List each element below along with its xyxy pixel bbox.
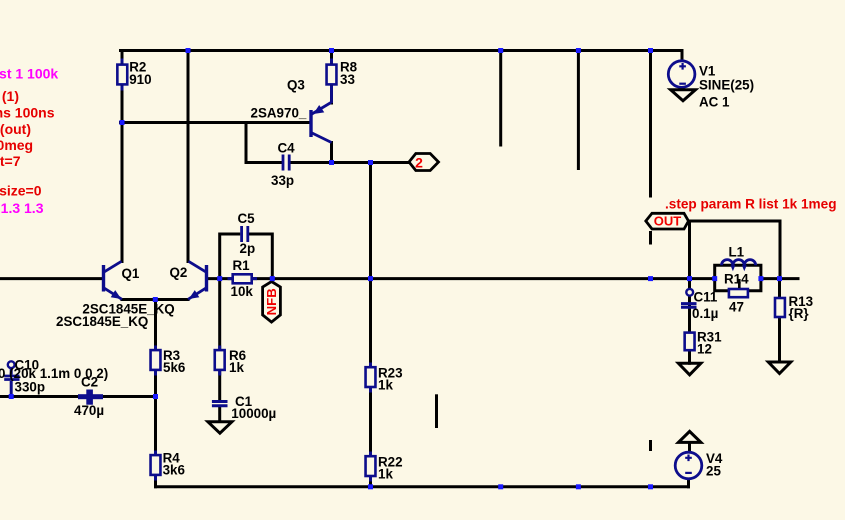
svg-text:330p: 330p [15,379,46,394]
svg-text:1.3 1.3: 1.3 1.3 [1,200,44,216]
resistor R8 [327,59,358,91]
resistor R14 [724,272,749,315]
node dot bottom bus x=650 [648,484,653,489]
node dot top bus x=650 [648,48,653,53]
wire dash x=650 lower [649,442,652,450]
node dot node2 column [368,160,373,165]
svg-text:1k: 1k [229,360,244,375]
svg-text:V1: V1 [699,64,716,79]
svg-text:.step param R list 1k 1meg: .step param R list 1k 1meg [665,197,837,212]
svg-text:size=0: size=0 [0,183,42,199]
transistor Q3 (PNP 2SA970) [251,78,332,143]
wire bottom bus [156,485,689,488]
svg-text:R14: R14 [724,272,749,287]
wire R2 column down to Q1 collector [121,51,124,262]
svg-text:10k: 10k [231,284,254,299]
wire R23 column from node 2 row to bottom bus [369,163,372,487]
svg-text:Q1: Q1 [122,266,140,281]
node dot main bus x=690 [687,276,692,281]
node dot C10 [9,394,14,399]
voltage source V1 [668,61,754,110]
resistor R4 [151,451,185,481]
net flag NFB [263,282,281,323]
node dot R2 bottom [120,120,125,125]
svg-text:2SC1845E_KQ: 2SC1845E_KQ [56,314,148,329]
svg-text:910: 910 [129,72,151,87]
resistor R3 [151,346,186,376]
node dot top bus x=500 [498,48,503,53]
svg-text:25: 25 [706,463,721,478]
wire emitter row Q1-Q2 [122,298,188,301]
node dot bottom bus x=370 [368,484,373,489]
capacitor C5 [238,211,256,256]
transistor Q2 (NPN mirrored) [170,261,207,299]
svg-text:t=7: t=7 [0,153,21,169]
svg-text:(1): (1) [2,88,19,104]
capacitor C10 (polarized) [4,357,45,395]
svg-text:33p: 33p [271,173,294,188]
svg-text:C2: C2 [81,374,98,389]
svg-text:2p: 2p [240,241,256,256]
capacitor C11 (polarized) [681,289,718,321]
wire C4 corner [245,123,248,163]
node dot main bus x=761 [758,276,763,281]
transistor Q1 (NPN) [104,261,140,299]
node dot C2 row x=155 [153,394,158,399]
ground under R31 [678,363,701,375]
svg-text:Q2: Q2 [170,265,188,280]
wire dangling stub x=436 [435,396,438,427]
node dot bottom bus x=578 [576,484,581,489]
wire L1/R14 loop [715,265,761,291]
net flag OUT [646,213,689,229]
node dot main bus x=650 [648,276,653,281]
node dot top bus x=188 [186,48,191,53]
wire main bus right [761,277,798,280]
svg-text:OUT: OUT [654,214,682,229]
node dot top bus x=578 [576,48,581,53]
wire V+ rail to V1 [681,51,684,64]
svg-text:C4: C4 [278,141,296,156]
svg-text:NFB: NFB [264,288,279,315]
wire C5 loop [220,234,273,279]
node dot main bus x=370 [368,276,373,281]
svg-text:Q3: Q3 [287,78,305,93]
svg-text:2: 2 [415,154,423,170]
wire R4 column [154,397,157,487]
svg-text:1k: 1k [378,467,393,482]
svg-text:12: 12 [697,342,712,357]
capacitor C2 (polarized, horizontal) [74,374,104,418]
directive text left column [0,66,58,217]
node dot bottom bus x=500 [498,484,503,489]
wire R3 column emitters down to C2 row [154,300,157,397]
svg-text:C5: C5 [238,211,256,226]
wire R6 column down to C1 [218,279,221,400]
resistor R31 [685,330,722,357]
wire C2 row [0,395,156,398]
svg-text:st 1 100k: st 1 100k [0,66,58,82]
wire C4 row right to node 2 flag [291,161,409,164]
wire Q2 collector column [187,51,190,262]
wire C11/R31 column [688,279,691,364]
svg-text:SINE(25): SINE(25) [699,78,754,93]
wire R8 column top [330,51,333,104]
capacitor C4 [271,141,295,189]
node flag 2 [409,154,439,171]
ground under C1 [208,422,232,433]
wire main bus center [208,277,715,280]
svg-text:C11: C11 [694,289,718,304]
resistor R13 [775,294,813,321]
node dot emitters [153,297,158,302]
wire OUT row [688,220,780,223]
resistor R2 [117,59,151,91]
node dot R1 right / NFB [270,276,275,281]
wire OUT to bus at x=780 [779,221,782,279]
wire main bus left (Q1 base) [0,277,102,280]
wire V4 bottom connection [687,478,690,487]
wire top bus [121,49,683,52]
resistor R22 [366,452,403,482]
svg-text:{R}: {R} [789,306,810,321]
resistor R23 [366,363,403,393]
wire C1 to ground [218,407,221,422]
svg-text:10000µ: 10000µ [231,406,276,421]
wire R13 column to ground [778,279,781,362]
wire dash below OUT flag [649,233,652,244]
ground under V1 [671,90,696,101]
node dot top bus x=331 [329,48,334,53]
wire OUT to bus at x=690 [688,221,691,279]
wire base row y=122.5 [121,121,310,124]
svg-text:L1: L1 [729,245,745,260]
resistor R6 [215,346,246,376]
svg-text:0.1µ: 0.1µ [692,306,718,321]
svg-text:33: 33 [340,72,355,87]
node dot Q2 base [217,276,222,281]
wire C4 row left [246,161,282,164]
wire stub x=578 [577,51,580,169]
capacitor C1 [212,394,276,421]
svg-text:1k: 1k [378,378,393,393]
node dot main bus x=780 [777,276,782,281]
inductor L1 [722,245,756,272]
svg-text:470µ: 470µ [74,403,104,418]
resistor R1 [228,258,258,299]
svg-text:AC 1: AC 1 [699,95,730,110]
svg-text:2SA970_: 2SA970_ [251,106,307,121]
node dot Q3 collector [329,160,334,165]
node dot main bus x=715 [712,276,717,281]
svg-text:(out): (out) [0,121,31,137]
ground under R13 [768,362,791,374]
wire Q3 collector down [330,143,333,163]
svg-text:0meg: 0meg [0,137,33,153]
svg-text:ns 100ns: ns 100ns [0,105,55,121]
svg-text:5k6: 5k6 [163,360,185,375]
svg-text:47: 47 [729,300,744,315]
ground above V4 (flipped) [678,431,701,453]
voltage source V4 [675,451,723,479]
wire x=650 to OUT flag [649,51,652,197]
wire stub x=500 [499,51,502,146]
svg-text:R1: R1 [233,258,251,273]
svg-text:3k6: 3k6 [163,463,185,478]
